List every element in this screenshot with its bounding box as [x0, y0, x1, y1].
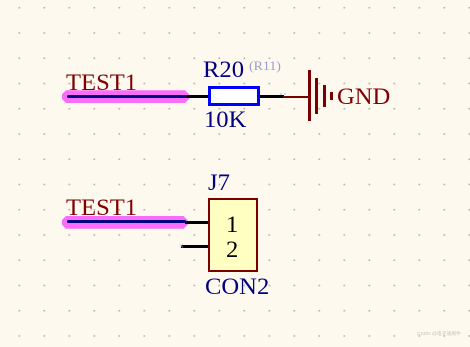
junction artifact dots	[280, 93, 282, 95]
value CON2	[205, 275, 269, 298]
connector J7 body	[208, 198, 259, 272]
power ground GND: bar 4	[330, 92, 333, 100]
net highlight TEST1 (top)	[62, 90, 190, 103]
power ground GND: lead wire	[283, 96, 309, 99]
wire TEST1 to J7 pin 1	[185, 221, 208, 225]
net label GND	[337, 85, 390, 108]
net highlight TEST1 (bottom)	[62, 216, 189, 229]
power ground GND: bar 2	[315, 78, 318, 114]
power ground GND: bar 1	[308, 70, 311, 121]
pin 2 unconnected marker	[178, 242, 184, 252]
pin 2 wire stub	[181, 245, 208, 249]
wire R20 to GND	[260, 95, 284, 98]
designator R20	[203, 58, 244, 81]
watermark	[417, 332, 461, 337]
pin 2 number	[226, 238, 238, 261]
power ground GND: bar 3	[323, 85, 326, 107]
wire TEST1 (top, highlighted navy segment)	[67, 95, 188, 98]
designator J7	[208, 171, 230, 194]
wire TEST1 (bottom, highlighted navy segment)	[67, 220, 186, 223]
wire TEST1 to R20	[186, 95, 208, 98]
value 10K	[204, 108, 246, 131]
net label TEST1 (bottom)	[66, 196, 137, 219]
net label TEST1 (top)	[66, 71, 137, 94]
alternate designator (R11)	[249, 59, 281, 72]
resistor R20	[208, 86, 260, 106]
pin 1 number	[226, 213, 238, 236]
